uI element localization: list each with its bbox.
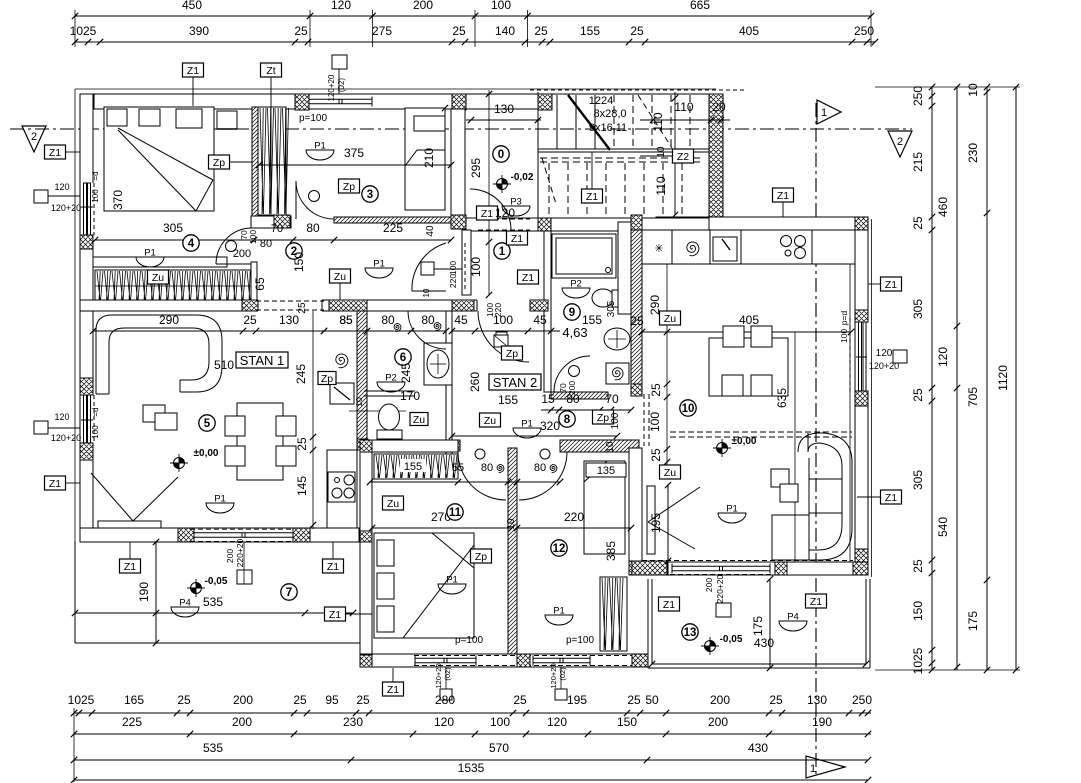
svg-text:25: 25	[293, 693, 307, 707]
svg-text:9x16,11: 9x16,11	[589, 122, 627, 134]
svg-text:4: 4	[188, 238, 195, 250]
Z1 box left wall upper	[45, 145, 66, 159]
wall hall2 stub	[251, 216, 291, 228]
door room11 arc	[458, 452, 506, 500]
Zp box room11	[471, 549, 492, 563]
dimension chain bottom row A	[74, 712, 871, 714]
svg-text:4,63: 4,63	[562, 325, 587, 340]
svg-text:100: 100	[493, 313, 513, 327]
svg-text:535: 535	[203, 595, 223, 609]
chimney hall8	[494, 335, 508, 347]
Zp box niche	[318, 372, 336, 385]
svg-text:220+20: 220+20	[235, 538, 245, 567]
level 0.00 living	[717, 443, 728, 454]
svg-text:13: 13	[684, 627, 697, 639]
nightstand	[217, 111, 237, 129]
wall exterior left	[80, 94, 93, 541]
svg-text:8x28,0: 8x28,0	[593, 108, 626, 120]
washbasin room9	[604, 328, 630, 350]
svg-text:25: 25	[911, 216, 925, 230]
svg-text:Zp: Zp	[213, 157, 225, 169]
room circle 1	[494, 243, 510, 259]
stairs lower flight dashed risers	[548, 163, 550, 215]
svg-text:-0,02: -0,02	[511, 172, 534, 183]
corridor dim row 290 25 130	[93, 330, 367, 332]
svg-text:390: 390	[189, 24, 209, 38]
svg-text:145: 145	[295, 476, 309, 496]
svg-text:120+20: 120+20	[434, 663, 443, 688]
svg-text:1025: 1025	[70, 24, 97, 38]
room circle 10	[680, 400, 696, 416]
Zu box living low	[660, 465, 681, 479]
section line 1-1 vertical	[816, 99, 912, 101]
wall exterior STAN1 south	[80, 528, 371, 542]
svg-text:STAN 1: STAN 1	[240, 353, 285, 368]
svg-text:110: 110	[651, 112, 665, 131]
room circle 12	[551, 540, 567, 556]
svg-text:460: 460	[936, 197, 950, 217]
svg-text:110: 110	[654, 176, 668, 195]
svg-text:25: 25	[243, 313, 257, 327]
svg-text:200: 200	[704, 578, 714, 592]
dim 195 niche	[667, 485, 669, 561]
stair break line dashed	[638, 95, 672, 148]
svg-text:25: 25	[630, 24, 644, 38]
chairs STAN1	[225, 416, 245, 436]
svg-text:2: 2	[31, 131, 37, 143]
room circle 5	[199, 415, 215, 431]
dim verticals living	[666, 264, 668, 475]
svg-text:25: 25	[452, 24, 466, 38]
bed room11	[374, 533, 474, 638]
svg-text:p=100: p=100	[299, 113, 328, 124]
svg-text:430: 430	[754, 636, 774, 650]
svg-text:70: 70	[605, 392, 619, 406]
bed blanket fold	[118, 128, 213, 180]
washbasin bath6	[424, 343, 452, 385]
svg-text:535: 535	[203, 741, 223, 755]
washing machine room9	[606, 363, 629, 384]
svg-text:Z1: Z1	[329, 609, 341, 621]
svg-text:150: 150	[911, 601, 925, 621]
svg-text:6: 6	[400, 352, 406, 364]
wall exterior top	[80, 94, 538, 109]
svg-text:80: 80	[566, 392, 580, 406]
svg-text:260: 260	[468, 372, 482, 392]
Zu box wardrobe4	[148, 270, 169, 284]
svg-text:635: 635	[775, 388, 789, 408]
level 0.00 stan1	[174, 458, 185, 469]
svg-text:225: 225	[383, 221, 403, 235]
svg-text:405: 405	[739, 24, 759, 38]
chimney terrace7	[237, 570, 252, 584]
svg-text:P1: P1	[521, 419, 533, 430]
svg-text:P1: P1	[726, 504, 738, 515]
svg-text:25: 25	[295, 437, 309, 451]
rug squares	[143, 405, 165, 422]
section marker 1 bottom	[806, 756, 845, 778]
svg-text:195: 195	[649, 513, 663, 533]
svg-text:170: 170	[400, 389, 420, 403]
counter hob	[781, 236, 792, 247]
svg-text:80: 80	[534, 462, 546, 474]
section marker 2 right	[888, 131, 912, 157]
door entry dashed	[478, 218, 530, 220]
toilet bath6	[379, 404, 400, 430]
wall exterior right	[855, 230, 868, 562]
svg-text:Z1: Z1	[663, 599, 675, 611]
bed pillows	[107, 109, 127, 126]
box 135 room12	[586, 463, 626, 477]
Z1 box room1b	[518, 270, 539, 284]
counter cutting board	[713, 237, 737, 261]
svg-text:Z1: Z1	[522, 272, 534, 284]
level -0.02	[497, 179, 508, 190]
niche door panel	[647, 486, 655, 554]
door room9 arc	[554, 356, 590, 392]
Z1 box stairs	[582, 189, 603, 203]
text 85 dim row	[324, 330, 446, 332]
svg-text:305: 305	[911, 299, 925, 319]
svg-text:25: 25	[911, 388, 925, 402]
door room12 arc	[519, 452, 567, 500]
svg-text:110: 110	[674, 100, 693, 114]
svg-text:25: 25	[294, 24, 308, 38]
window living south	[672, 565, 770, 567]
svg-text:P1: P1	[144, 248, 156, 259]
svg-text:120: 120	[547, 715, 567, 729]
dining table living10	[709, 338, 788, 396]
svg-text:1: 1	[821, 107, 827, 119]
svg-text:80: 80	[260, 238, 272, 250]
door opening corridor to living	[258, 299, 322, 312]
door bath6 arc	[408, 311, 446, 349]
outer contour line top	[75, 88, 716, 90]
svg-text:P1: P1	[446, 575, 458, 586]
stair dim 110 vertical	[674, 92, 676, 215]
svg-text:Zu: Zu	[334, 271, 346, 283]
svg-text:9: 9	[569, 307, 575, 319]
sofa STAN1	[96, 315, 222, 394]
svg-text:P2: P2	[570, 279, 582, 290]
Zp box stan2 door	[502, 346, 523, 360]
svg-text:120+20: 120+20	[549, 663, 558, 688]
Z1 box living east	[881, 277, 902, 291]
svg-text:220: 220	[448, 274, 458, 288]
dashed canopy line	[670, 431, 852, 433]
chimney south2	[555, 689, 567, 700]
corner window living	[91, 473, 133, 521]
svg-text:Zp: Zp	[475, 551, 487, 563]
svg-text:10: 10	[422, 288, 431, 297]
Z1 box entry	[477, 206, 498, 220]
stair upper dashed	[530, 89, 745, 91]
svg-text:P1: P1	[214, 494, 226, 505]
room circle 4	[183, 235, 199, 251]
svg-text:P4: P4	[787, 612, 799, 623]
terrace 13 outline	[647, 579, 649, 668]
svg-text:25: 25	[649, 383, 663, 397]
P1 bowl bedroom4	[136, 257, 164, 267]
svg-text:405: 405	[739, 313, 759, 327]
svg-text:p=d: p=d	[839, 311, 849, 326]
svg-text:100: 100	[448, 261, 458, 275]
P3 bowl entry	[502, 206, 530, 216]
svg-text:100: 100	[248, 230, 258, 244]
svg-text:230: 230	[343, 715, 363, 729]
P4 bowl terrace13	[779, 621, 807, 631]
room circle 9	[564, 304, 580, 320]
svg-text:8: 8	[564, 414, 571, 426]
dimension chain bottom row B	[74, 733, 871, 735]
STAN 1 label	[236, 352, 288, 368]
P2 bowl room9	[562, 288, 590, 298]
svg-text:175: 175	[966, 611, 980, 631]
svg-text:295: 295	[469, 158, 483, 178]
wall bath6 east	[446, 300, 452, 455]
svg-text:120+20: 120+20	[51, 433, 81, 443]
svg-text:Z1: Z1	[511, 233, 523, 245]
svg-text:25: 25	[627, 693, 641, 707]
room circle 13	[682, 624, 698, 640]
wall room1 west	[462, 230, 471, 295]
svg-text:570: 570	[489, 741, 509, 755]
svg-text:220+20: 220+20	[715, 574, 725, 603]
STAN2 door arc	[478, 311, 529, 362]
marker box room1 door	[421, 262, 434, 275]
chimney terrace13	[716, 603, 731, 617]
svg-text:±0,00: ±0,00	[194, 448, 219, 459]
Z2 box stairs	[673, 149, 694, 163]
stairs upper flight dashed risers	[613, 95, 615, 149]
chimney south1	[440, 689, 452, 700]
stair dim 110 20 line top	[640, 119, 730, 121]
kitchen counter living10	[642, 230, 855, 264]
svg-text:Z1: Z1	[49, 478, 61, 490]
dimension chain top row 1 (450 120 200 100 665)	[75, 15, 871, 17]
svg-text:Z1: Z1	[387, 684, 399, 696]
bed bedroom4 double	[104, 107, 214, 211]
room circle 11	[447, 504, 463, 520]
dining table STAN1	[237, 403, 283, 480]
counter sink spiral	[687, 242, 699, 256]
dim 405 living	[642, 331, 851, 333]
wall room12 east	[629, 448, 642, 575]
svg-text:Z1: Z1	[187, 65, 199, 77]
room circle 0	[493, 146, 509, 162]
svg-text:200: 200	[233, 693, 253, 707]
svg-text:250: 250	[911, 86, 925, 106]
svg-text:210: 210	[422, 148, 436, 168]
P1 bowl room12	[545, 615, 573, 625]
svg-text:705: 705	[966, 387, 980, 407]
bed bedroom3 single	[405, 108, 445, 210]
svg-text:Zp: Zp	[343, 181, 355, 193]
svg-text:100: 100	[648, 412, 662, 432]
Zu box hall8 low	[480, 413, 501, 427]
terrace 7 outline	[74, 541, 76, 643]
window top (120+20) in top wall	[309, 98, 372, 100]
section line 2-2 horizontal	[10, 128, 912, 130]
svg-text:120: 120	[331, 0, 351, 12]
svg-text:40: 40	[425, 225, 436, 237]
Zp box room3	[339, 179, 360, 193]
svg-text:155: 155	[498, 393, 518, 407]
wall under stairs / entry south	[466, 218, 709, 231]
svg-text:430: 430	[748, 741, 768, 755]
Z1 box living east2	[881, 490, 902, 504]
svg-text:120: 120	[434, 715, 454, 729]
Z1 box left wall lower	[45, 476, 66, 490]
svg-text:150: 150	[292, 252, 306, 272]
svg-text:230: 230	[966, 143, 980, 163]
svg-text:200: 200	[233, 248, 251, 260]
svg-text:150: 150	[617, 715, 637, 729]
Z1 box terr7 c	[325, 607, 346, 621]
svg-text:275: 275	[372, 24, 392, 38]
svg-text:100: 100	[91, 425, 100, 439]
svg-text:1: 1	[499, 246, 506, 258]
wall bath6 inner	[364, 390, 415, 392]
svg-text:7: 7	[286, 587, 292, 599]
svg-text:15: 15	[541, 392, 555, 406]
level -0.05 terrace13	[705, 641, 716, 652]
svg-text:25: 25	[630, 314, 644, 328]
Zp box hall8	[593, 410, 614, 424]
closet room12	[584, 461, 625, 554]
svg-text:1535: 1535	[458, 761, 485, 775]
door room1 arc	[412, 290, 446, 292]
wardrobe room12	[600, 577, 627, 651]
marker 120 left lower	[34, 421, 48, 434]
svg-text:10: 10	[605, 441, 616, 453]
extension lines top	[74, 10, 76, 47]
wall bedroom4 south	[93, 257, 227, 267]
Z1 box terr13 b	[806, 594, 827, 608]
dim 375 room3	[259, 164, 451, 166]
wall hall8 south left part	[360, 440, 458, 452]
stair break line thick	[568, 95, 610, 150]
svg-text:245: 245	[399, 363, 413, 383]
svg-text:510: 510	[214, 358, 234, 372]
Z1 box above kitchen	[773, 188, 794, 202]
window left lower	[79, 395, 94, 443]
P1 bowl corridor	[365, 268, 393, 278]
window room12 south	[533, 657, 590, 659]
room circle 8	[559, 411, 575, 427]
niche dashed boundary	[643, 394, 645, 446]
svg-text:Zu: Zu	[484, 415, 496, 427]
svg-text:195: 195	[567, 693, 587, 707]
svg-text:1224: 1224	[589, 95, 613, 107]
svg-text:385: 385	[604, 541, 618, 561]
svg-text:225: 225	[122, 715, 142, 729]
svg-text:Zp: Zp	[506, 348, 518, 360]
extension lines right	[875, 86, 1020, 88]
svg-text:215: 215	[911, 152, 925, 172]
svg-text:130: 130	[494, 102, 514, 116]
svg-text:(02): (02)	[558, 667, 567, 681]
svg-text:25: 25	[769, 693, 783, 707]
svg-text:45: 45	[533, 313, 547, 327]
svg-text:200: 200	[225, 549, 235, 563]
stair landing lines	[538, 148, 709, 150]
dim 320 hall8	[452, 435, 617, 437]
svg-text:Z1: Z1	[810, 596, 822, 608]
svg-text:540: 540	[936, 517, 950, 537]
svg-text:=d: =d	[91, 171, 100, 180]
dimension chain right 1	[931, 87, 933, 670]
svg-text:120: 120	[936, 347, 950, 367]
svg-text:155: 155	[404, 461, 422, 473]
dim 15 80 70 hall8	[541, 409, 631, 411]
svg-text:✳: ✳	[654, 243, 663, 255]
svg-text:200: 200	[708, 715, 728, 729]
window living east in right wall	[854, 322, 869, 391]
svg-text:Z1: Z1	[481, 208, 493, 220]
closet room2 wardrobe	[258, 107, 286, 215]
Z1 box terr7 a	[120, 559, 141, 573]
text 220 room12	[517, 527, 631, 529]
svg-text:245: 245	[294, 364, 308, 384]
svg-text:100: 100	[91, 189, 100, 203]
svg-text:12: 12	[553, 543, 566, 555]
svg-text:65: 65	[253, 277, 267, 291]
room circle 2	[286, 243, 302, 259]
svg-text:80: 80	[306, 221, 320, 235]
sofa living10	[772, 433, 852, 560]
svg-text:2: 2	[897, 136, 903, 148]
bed11 blanket fold	[403, 545, 474, 638]
svg-text:P4: P4	[179, 598, 191, 609]
dimension chain right 3 (10 230 705 175)	[986, 87, 988, 670]
svg-text:100: 100	[610, 412, 621, 429]
svg-text:120: 120	[54, 412, 69, 422]
svg-text:Z1: Z1	[777, 190, 789, 202]
svg-text:85: 85	[339, 313, 353, 327]
svg-text:25: 25	[911, 559, 925, 573]
P2 bowl bath6	[377, 382, 405, 392]
dim 130 entry	[466, 119, 541, 121]
svg-text:Zp: Zp	[321, 373, 333, 385]
svg-text:100: 100	[491, 0, 511, 12]
svg-text:=d: =d	[91, 407, 100, 416]
terrace13 dim 175	[769, 579, 771, 668]
svg-text:130: 130	[279, 313, 299, 327]
svg-text:120+20: 120+20	[51, 203, 81, 213]
Zu box corridor	[330, 269, 351, 283]
svg-text:1: 1	[810, 763, 816, 775]
STAN 2 label	[489, 374, 541, 390]
P1 bowl living	[206, 503, 234, 513]
svg-text:450: 450	[182, 0, 202, 12]
svg-text:100: 100	[490, 715, 510, 729]
svg-text:120: 120	[54, 182, 69, 192]
door opening STAN2 entry	[477, 299, 530, 312]
Zu box bath6	[410, 413, 428, 426]
svg-text:Zu: Zu	[664, 467, 676, 479]
dimension chain right 4 (1120)	[1015, 87, 1017, 670]
room circle 6	[395, 349, 411, 365]
wall mid-block south	[360, 654, 648, 667]
wall corridor row	[80, 300, 367, 311]
door bedroom4 arc	[216, 263, 252, 265]
svg-text:190: 190	[137, 582, 151, 602]
svg-text:100: 100	[839, 329, 849, 343]
svg-text:Z1: Z1	[586, 191, 598, 203]
svg-text:P1: P1	[314, 141, 326, 152]
svg-text:135: 135	[597, 465, 615, 477]
